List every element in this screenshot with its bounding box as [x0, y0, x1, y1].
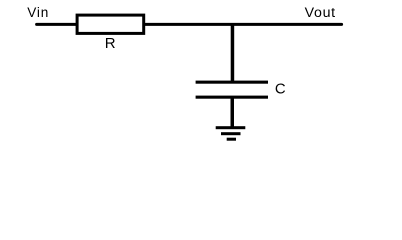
svg-text:C: C: [275, 82, 286, 98]
wire: vertical from output node down to capacitor top plate: [231, 24, 235, 82]
ground symbol: middle bar: [221, 132, 241, 135]
capacitor C1 bottom plate: [196, 96, 268, 99]
resistor R1 (series resistor body): [77, 15, 144, 33]
wire: Vin to Vout main horizontal wire: [37, 23, 342, 26]
capacitor C1 top plate: [196, 81, 268, 84]
svg-text:R: R: [105, 35, 116, 52]
ground symbol: top (widest) bar: [216, 126, 246, 129]
svg-text:Vout: Vout: [305, 5, 336, 21]
ground symbol: bottom (shortest) bar: [227, 138, 236, 141]
svg-text:Vin: Vin: [27, 5, 49, 20]
wire: vertical from capacitor bottom plate down to ground: [231, 97, 235, 129]
